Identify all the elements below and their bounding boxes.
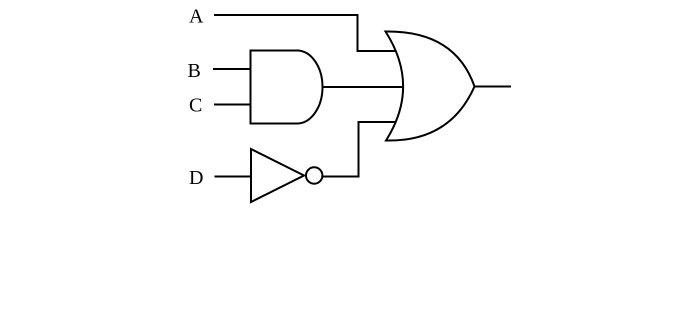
wire A to OR gate top input (214, 15, 396, 51)
wire AND output to OR gate middle input (323, 86, 405, 88)
wire C to AND gate (214, 104, 251, 106)
OR gate U2 (386, 31, 475, 140)
wire D to NOT gate (215, 176, 252, 178)
inverter bubble (306, 167, 322, 183)
wire OR output (475, 86, 512, 88)
svg-text:B: B (188, 60, 201, 82)
svg-text:D: D (189, 167, 203, 189)
wire B to AND gate (213, 68, 251, 70)
wire NOT output to OR gate bottom input (323, 122, 397, 177)
svg-text:A: A (189, 6, 204, 28)
svg-text:C: C (189, 95, 202, 117)
AND gate U1 (251, 51, 323, 124)
inverter (NOT gate) triangle (251, 149, 304, 202)
